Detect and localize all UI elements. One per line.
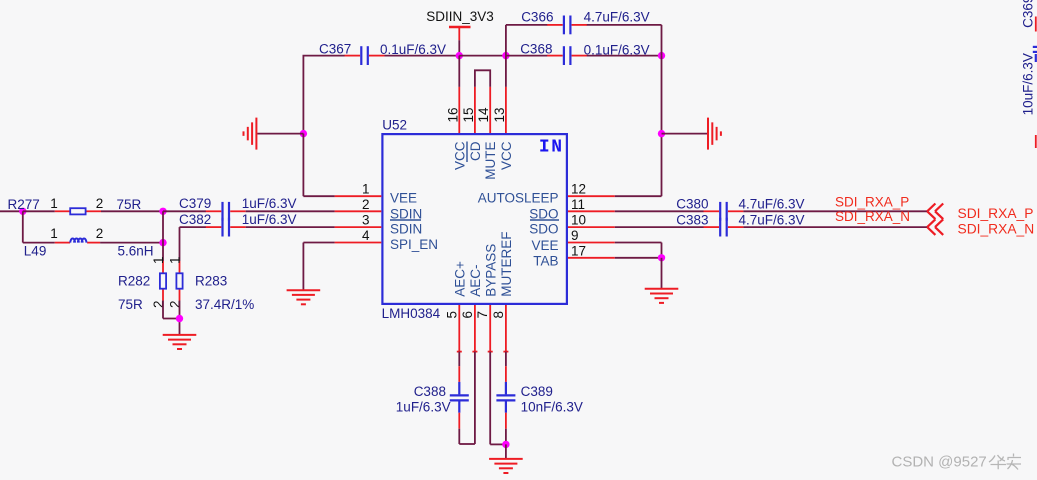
wire pin11 to C380 xyxy=(615,210,704,212)
capacitor C379 xyxy=(206,202,246,221)
capacitor C366 xyxy=(547,16,587,35)
svg-text:15: 15 xyxy=(461,107,476,122)
svg-text:C368: C368 xyxy=(520,42,552,57)
svg-text:C382: C382 xyxy=(179,212,211,227)
U52 pin 17 stub xyxy=(568,257,615,259)
U52 pin 14 xyxy=(489,87,491,133)
svg-text:LMH0384: LMH0384 xyxy=(382,306,441,321)
wire left vertical to pin1 xyxy=(302,134,304,197)
inductor L49 xyxy=(55,239,100,243)
svg-text:13: 13 xyxy=(492,107,507,122)
capacitor C380 xyxy=(704,202,744,221)
svg-text:16: 16 xyxy=(445,107,460,122)
svg-text:1uF/6.3V: 1uF/6.3V xyxy=(242,196,297,211)
watermark CSDN @9527 hua-an xyxy=(892,454,1022,471)
ground (SPI_EN) xyxy=(287,290,321,304)
wire R283 to ground xyxy=(179,301,181,335)
svg-text:C380: C380 xyxy=(676,197,708,212)
svg-text:0.1uF/6.3V: 0.1uF/6.3V xyxy=(380,42,446,57)
junction SDIIN_3V3 node xyxy=(456,52,463,59)
U52 pin 9 stub xyxy=(568,242,615,244)
svg-text:SDO: SDO xyxy=(529,206,558,221)
wire L49 to junction xyxy=(100,242,163,244)
wire C379 to pin2 xyxy=(246,210,335,212)
svg-text:SDI_RXA_N: SDI_RXA_N xyxy=(958,221,1035,236)
wire junction to R282 xyxy=(162,211,164,261)
wire C368 to right vertical xyxy=(587,55,662,57)
junction pin9/17 xyxy=(658,254,665,261)
junction L49 out xyxy=(159,239,166,246)
svg-text:MUTEREF: MUTEREF xyxy=(499,232,514,297)
wire pin9 row xyxy=(615,242,662,244)
wire pin17 row xyxy=(615,257,662,259)
svg-text:1: 1 xyxy=(50,196,58,211)
wire up to C366 row xyxy=(505,25,507,56)
svg-text:L49: L49 xyxy=(24,244,47,259)
U52 pin 8 stub xyxy=(503,305,508,352)
svg-text:VCC: VCC xyxy=(499,141,514,170)
U52 pin 12 stub xyxy=(568,195,615,197)
capacitor C367 xyxy=(345,46,385,65)
wire C383 to off-page N xyxy=(743,226,927,228)
wire pin4 down to ground xyxy=(302,243,304,291)
op-amp U52 LMH0384 body xyxy=(382,134,567,304)
U52 pin 15 xyxy=(474,87,476,133)
svg-text:12: 12 xyxy=(571,182,586,197)
U52 pin 10 stub xyxy=(568,226,615,228)
svg-text:37.4R/1%: 37.4R/1% xyxy=(195,297,254,312)
U52 pin 11 stub xyxy=(568,210,615,212)
U52 pin 13 xyxy=(505,56,507,133)
svg-text:C383: C383 xyxy=(676,212,708,227)
capacitor C383 xyxy=(704,218,744,237)
ground (right, rotated) xyxy=(708,118,721,150)
svg-text:9: 9 xyxy=(571,228,579,243)
svg-text:4.7uF/6.3V: 4.7uF/6.3V xyxy=(739,212,805,227)
wire C367 row left xyxy=(303,55,346,57)
svg-text:C389: C389 xyxy=(521,384,553,399)
svg-text:TAB: TAB xyxy=(533,253,558,268)
svg-text:SDI_RXA_P: SDI_RXA_P xyxy=(835,194,909,209)
wire to ground xyxy=(661,258,663,289)
svg-text:MUTE: MUTE xyxy=(483,142,498,180)
svg-text:SDI_RXA_P: SDI_RXA_P xyxy=(958,206,1034,221)
svg-text:IN: IN xyxy=(539,138,564,158)
wire C382 row xyxy=(180,226,207,228)
U52 pin 5 stub xyxy=(457,305,462,352)
wire down to L49 row xyxy=(22,211,24,242)
wire right vertical upper xyxy=(661,25,663,56)
wire R282 to R283 node xyxy=(163,318,180,320)
svg-text:CD: CD xyxy=(468,141,483,161)
wire to C379 xyxy=(163,210,206,212)
capacitor C389 xyxy=(496,352,515,429)
off-page connector SDI_RXA_N xyxy=(927,219,943,235)
svg-text:3: 3 xyxy=(362,213,370,228)
svg-text:C379: C379 xyxy=(179,196,211,211)
junction C389/pin7 xyxy=(502,441,509,448)
wire to bottom ground xyxy=(505,444,507,458)
ground (left, rotated) xyxy=(244,118,257,150)
svg-text:1: 1 xyxy=(50,226,58,241)
pin name CD(bar) xyxy=(467,141,483,162)
wire C367 to junction xyxy=(385,55,460,57)
svg-text:1: 1 xyxy=(362,182,370,197)
svg-text:R282: R282 xyxy=(118,274,150,289)
svg-text:2: 2 xyxy=(362,197,370,212)
svg-text:SDIN: SDIN xyxy=(390,206,422,221)
ground (VEE/TAB) xyxy=(645,289,679,303)
svg-text:14: 14 xyxy=(476,107,491,123)
svg-text:1: 1 xyxy=(151,256,166,264)
svg-text:8: 8 xyxy=(491,311,506,319)
junction R282/R283 xyxy=(176,315,183,322)
junction R277 out xyxy=(159,208,166,215)
wire C382 to pin3 xyxy=(246,226,335,228)
U52 pin 2 stub xyxy=(335,210,382,212)
svg-text:SDIN: SDIN xyxy=(390,221,422,236)
wire pin7 down xyxy=(489,352,491,445)
svg-text:10nF/6.3V: 10nF/6.3V xyxy=(521,400,583,415)
svg-text:C369: C369 xyxy=(1020,0,1035,28)
junction input node xyxy=(19,208,26,215)
svg-text:75R: 75R xyxy=(117,197,142,212)
wire to C368 xyxy=(506,55,548,57)
svg-text:7: 7 xyxy=(475,311,490,319)
wire C366 to right vertical xyxy=(587,24,662,26)
svg-text:SDI_RXA_N: SDI_RXA_N xyxy=(835,209,910,224)
U52 pin 4 stub xyxy=(335,242,382,244)
svg-text:4: 4 xyxy=(362,228,370,243)
capacitor C382 xyxy=(206,218,246,237)
junction right vertical C368 row xyxy=(658,52,665,59)
wire pin10 to C383 xyxy=(615,226,704,228)
wire junction1 to junction2 xyxy=(459,55,506,57)
svg-text:C366: C366 xyxy=(521,10,553,25)
capacitor C388 xyxy=(450,352,469,429)
U52 pin 16 xyxy=(458,56,460,133)
resistor R283 xyxy=(176,261,182,301)
svg-text:R283: R283 xyxy=(195,274,227,289)
svg-text:AEC-: AEC- xyxy=(468,265,483,297)
svg-text:SDIIN_3V3: SDIIN_3V3 xyxy=(426,9,494,24)
wire C388 down xyxy=(458,429,460,444)
wire R282 bottom xyxy=(162,301,164,319)
wire R277 to junction xyxy=(101,210,163,212)
svg-text:R277: R277 xyxy=(8,197,40,212)
svg-text:CSDN @9527: CSDN @9527 xyxy=(892,454,987,471)
wire right vertical to ground node xyxy=(661,56,663,134)
junction right ground node xyxy=(658,130,665,137)
power flag SDIIN_3V3 xyxy=(449,27,471,40)
svg-text:10uF/6.3V: 10uF/6.3V xyxy=(1020,53,1035,115)
wire C388 to pin6 column xyxy=(459,443,475,445)
svg-text:4.7uF/6.3V: 4.7uF/6.3V xyxy=(584,10,650,25)
pin name SDO(bar) xyxy=(529,220,559,236)
U52 pin 3 stub xyxy=(335,226,382,228)
resistor R282 xyxy=(160,261,166,301)
wire to pin1 xyxy=(303,195,334,197)
capacitor C369 (clipped at edge) xyxy=(1033,17,1037,149)
svg-text:75R: 75R xyxy=(118,297,143,312)
wire pin15-pin14 loop xyxy=(475,70,490,87)
wire to R277 xyxy=(23,210,55,212)
wire to L49 xyxy=(23,242,55,244)
svg-text:5: 5 xyxy=(444,311,459,319)
wire pin4 left xyxy=(303,242,334,244)
svg-text:11: 11 xyxy=(571,197,585,212)
svg-text:VCC: VCC xyxy=(452,141,467,170)
svg-text:C367: C367 xyxy=(319,42,351,57)
wire to left ground xyxy=(257,133,303,135)
wire pin7 to junction xyxy=(490,443,506,445)
svg-text:5.6nH: 5.6nH xyxy=(118,244,154,259)
wire pin12 up to ground node xyxy=(661,134,663,197)
svg-text:2: 2 xyxy=(96,226,104,241)
svg-text:BYPASS: BYPASS xyxy=(484,244,499,297)
svg-text:1: 1 xyxy=(168,256,183,264)
ground (R282/R283) xyxy=(163,335,197,349)
U52 pin 1 stub xyxy=(335,195,382,197)
junction pin13 node xyxy=(502,52,509,59)
wire pin12 row xyxy=(615,195,662,197)
wire C380 to off-page P xyxy=(743,210,927,212)
wire pin9 down xyxy=(661,243,663,258)
svg-text:1uF/6.3V: 1uF/6.3V xyxy=(396,400,451,415)
svg-text:VEE: VEE xyxy=(390,191,417,206)
wire left vertical upper xyxy=(302,56,304,134)
svg-text:SPI_EN: SPI_EN xyxy=(390,237,438,252)
svg-text:17: 17 xyxy=(571,243,586,258)
svg-text:AUTOSLEEP: AUTOSLEEP xyxy=(478,191,559,206)
wire C389 down xyxy=(505,429,507,445)
svg-text:U52: U52 xyxy=(382,118,407,133)
wire C382 row to R283 xyxy=(179,227,181,261)
ground (bottom center) xyxy=(489,459,523,473)
svg-text:4.7uF/6.3V: 4.7uF/6.3V xyxy=(739,197,805,212)
svg-text:SDO: SDO xyxy=(529,221,558,236)
svg-text:10: 10 xyxy=(571,213,586,228)
svg-text:C388: C388 xyxy=(414,384,446,399)
wire pin6 down xyxy=(474,352,476,444)
svg-text:1uF/6.3V: 1uF/6.3V xyxy=(242,212,297,227)
svg-text:2: 2 xyxy=(96,196,104,211)
resistor R277 xyxy=(55,208,101,214)
svg-text:AEC+: AEC+ xyxy=(453,261,468,297)
U52 pin 6 stub xyxy=(472,305,477,352)
wire input left edge xyxy=(0,210,23,212)
svg-text:6: 6 xyxy=(460,311,475,319)
capacitor C368 xyxy=(547,46,587,65)
off-page connector SDI_RXA_P xyxy=(927,204,943,220)
U52 pin 7 stub xyxy=(488,305,493,352)
svg-text:VEE: VEE xyxy=(531,238,558,253)
wire power stem xyxy=(458,40,460,55)
junction left ground node xyxy=(300,130,307,137)
wire to C366 xyxy=(506,24,548,26)
wire to right ground xyxy=(662,133,708,135)
pin name SDIN(bar) xyxy=(390,220,422,236)
